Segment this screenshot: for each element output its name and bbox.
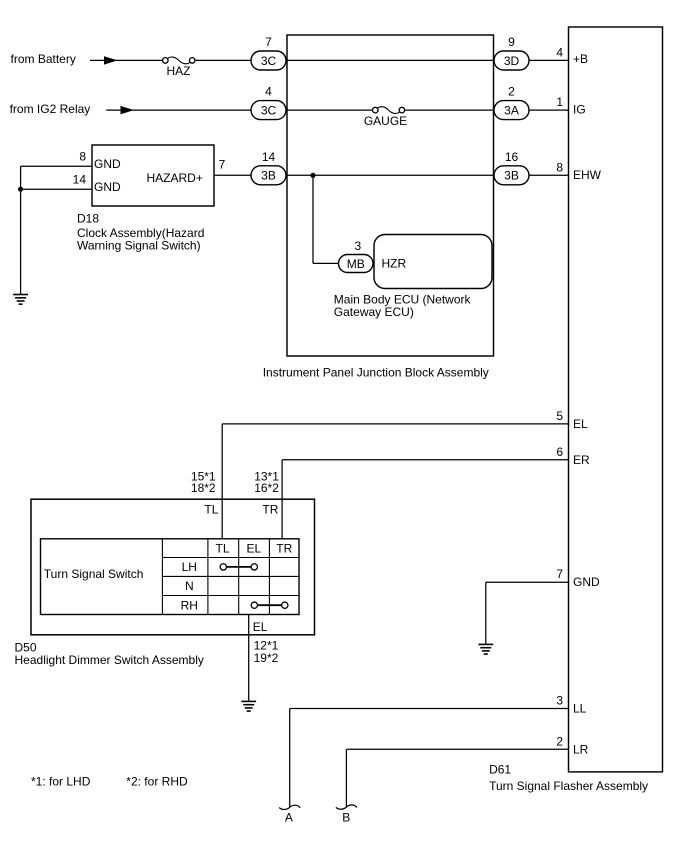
svg-text:GND: GND	[573, 575, 600, 589]
wire from battery	[90, 59, 163, 61]
wire row1 inside junction block	[286, 59, 494, 61]
wire down to ground	[20, 166, 22, 294]
svg-text:18*2: 18*2	[191, 481, 216, 495]
junction node row3	[310, 173, 315, 178]
svg-text:3: 3	[354, 239, 361, 253]
wire break B	[336, 805, 357, 809]
svg-text:16*2: 16*2	[254, 481, 279, 495]
svg-text:Turn Signal Switch: Turn Signal Switch	[44, 567, 144, 581]
svg-text:TR: TR	[262, 502, 278, 516]
arrow from battery	[104, 56, 118, 64]
svg-text:TR: TR	[276, 542, 292, 556]
svg-text:6: 6	[556, 445, 563, 459]
svg-text:LH: LH	[182, 560, 197, 574]
wire 3B to EHW	[529, 174, 569, 176]
wire EL horizontal	[222, 423, 568, 425]
svg-text:EL: EL	[573, 417, 588, 431]
fuse GAUGE	[373, 107, 379, 113]
wire 3D to +B	[529, 59, 569, 61]
switch box D50	[31, 499, 315, 635]
svg-text:GAUGE: GAUGE	[364, 114, 407, 128]
wire D18 to 3B	[214, 174, 251, 176]
flasher box D61 Turn Signal Flasher Assembly	[569, 27, 663, 772]
svg-text:D18: D18	[77, 211, 99, 225]
svg-text:9: 9	[508, 35, 515, 49]
contact LH TL-EL	[220, 564, 226, 570]
svg-text:3A: 3A	[504, 103, 519, 117]
svg-text:IG: IG	[573, 103, 586, 117]
wire LR horizontal	[346, 748, 568, 750]
svg-text:19*2: 19*2	[254, 651, 279, 665]
svg-text:3C: 3C	[261, 54, 277, 68]
wire LL down	[289, 709, 291, 808]
fuse HAZ	[163, 58, 169, 64]
svg-text:14: 14	[73, 172, 87, 186]
svg-text:3C: 3C	[261, 103, 277, 117]
svg-text:EL: EL	[246, 542, 261, 556]
svg-text:2: 2	[508, 85, 515, 99]
svg-text:3B: 3B	[261, 169, 276, 183]
svg-text:3D: 3D	[504, 54, 520, 68]
wire GND horizontal	[486, 581, 569, 583]
wire D18 pin14 left	[21, 188, 92, 190]
wire LR down	[345, 749, 347, 807]
svg-text:Turn Signal Flasher Assembly: Turn Signal Flasher Assembly	[489, 779, 648, 793]
svg-text:LL: LL	[573, 702, 587, 716]
svg-text:D61: D61	[489, 762, 511, 776]
wire 3A to IG	[529, 109, 569, 111]
svg-text:from Battery: from Battery	[11, 52, 76, 66]
svg-text:LR: LR	[573, 742, 589, 756]
contact RH EL-TR	[251, 602, 257, 608]
wire D18 pin8 left	[21, 165, 92, 167]
svg-text:7: 7	[219, 157, 226, 171]
wire EL down from table	[248, 615, 250, 702]
svg-text:2: 2	[556, 734, 563, 748]
svg-text:HAZ: HAZ	[167, 64, 191, 78]
hazard switch D18 box	[92, 145, 214, 206]
junction block U1 Instrument Panel Junction Block Assembly	[287, 35, 494, 356]
wire row2 to GAUGE fuse	[286, 109, 373, 111]
wire GND down	[485, 582, 487, 644]
connector 3A	[494, 101, 529, 120]
svg-text:14: 14	[262, 150, 276, 164]
svg-text:3B: 3B	[504, 169, 519, 183]
svg-text:*2: for RHD: *2: for RHD	[126, 774, 188, 788]
ground switch EL	[241, 701, 256, 711]
ECU block HZR	[374, 235, 492, 289]
wire to MB connector	[313, 262, 339, 264]
svg-text:1: 1	[556, 95, 563, 109]
svg-text:MB: MB	[347, 257, 365, 271]
wire LL horizontal	[290, 708, 569, 710]
svg-text:4: 4	[265, 85, 272, 99]
svg-text:from IG2 Relay: from IG2 Relay	[10, 102, 91, 116]
svg-text:EHW: EHW	[573, 168, 602, 182]
connector 3D	[494, 51, 529, 70]
connector MB	[339, 255, 374, 273]
svg-text:5: 5	[556, 409, 563, 423]
ground flasher GND	[478, 644, 493, 654]
svg-text:ER: ER	[573, 453, 590, 467]
svg-text:Warning Signal Switch): Warning Signal Switch)	[77, 239, 201, 253]
svg-text:GND: GND	[94, 180, 121, 194]
connector 3B left	[251, 166, 286, 185]
switch table outer	[41, 539, 300, 615]
svg-text:Instrument Panel Junction Bloc: Instrument Panel Junction Block Assembly	[263, 365, 489, 379]
svg-text:HAZARD+: HAZARD+	[147, 171, 203, 185]
svg-text:7: 7	[265, 35, 272, 49]
arrow from IG2 relay	[121, 106, 135, 114]
svg-text:3: 3	[556, 694, 563, 708]
connector 3C row1	[251, 51, 286, 70]
junction node D18 grounds	[18, 187, 23, 192]
svg-text:Headlight Dimmer Switch Assemb: Headlight Dimmer Switch Assembly	[15, 653, 204, 667]
svg-text:7: 7	[556, 567, 563, 581]
wire row3 inside junction block	[286, 174, 494, 176]
svg-text:RH: RH	[181, 598, 198, 612]
svg-text:A: A	[285, 811, 293, 825]
wire EL down to switch	[221, 424, 223, 539]
ground D18	[13, 295, 28, 305]
wire ER horizontal	[282, 459, 568, 461]
svg-text:N: N	[185, 579, 194, 593]
connector 3B right	[494, 166, 529, 185]
svg-text:8: 8	[79, 149, 86, 163]
svg-text:*1: for LHD: *1: for LHD	[31, 774, 91, 788]
svg-text:+B: +B	[573, 52, 588, 66]
svg-text:4: 4	[556, 45, 563, 59]
svg-text:Gateway ECU): Gateway ECU)	[334, 305, 414, 319]
svg-text:TL: TL	[215, 542, 229, 556]
wire junction down to MB	[312, 175, 314, 263]
wire GAUGE to 3A	[405, 109, 494, 111]
svg-text:8: 8	[556, 160, 563, 174]
svg-text:HZR: HZR	[382, 257, 407, 271]
wire from IG2 relay	[106, 109, 251, 111]
svg-text:B: B	[342, 810, 350, 824]
switch table grid	[162, 539, 299, 615]
wire ER down to switch	[281, 460, 283, 539]
wire HAZ to 3C	[195, 59, 251, 61]
wire break A	[279, 805, 300, 809]
svg-text:GND: GND	[94, 157, 121, 171]
svg-text:TL: TL	[204, 502, 218, 516]
svg-text:EL: EL	[253, 620, 268, 634]
svg-text:16: 16	[505, 150, 519, 164]
connector 3C row2	[251, 101, 286, 120]
